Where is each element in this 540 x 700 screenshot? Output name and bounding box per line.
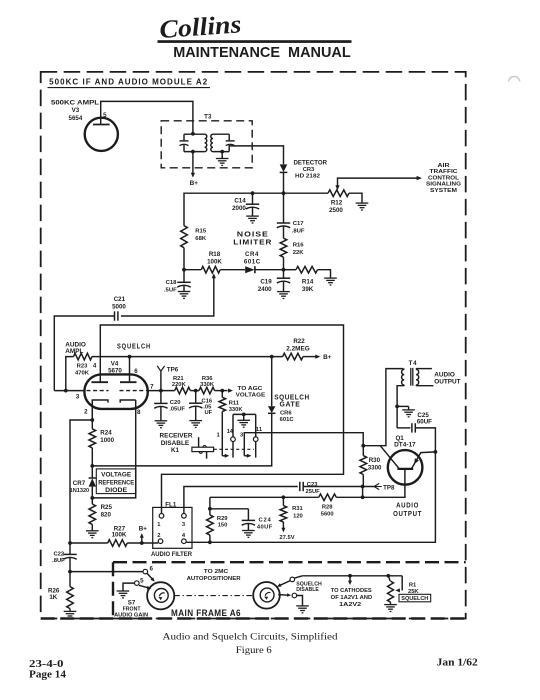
FL1 pin 3 terminal [182, 514, 187, 519]
wire C23 to R30 node [303, 486, 374, 488]
wire V4 pin3 grid bus [54, 390, 85, 392]
label R16 [293, 243, 305, 249]
junction R31 tap [282, 495, 286, 499]
resistor R27 [108, 540, 128, 547]
potentiometer squelch-disable outer [253, 582, 280, 609]
wire C24 lead [247, 509, 249, 520]
svg-text:Collins: Collins [158, 9, 242, 44]
footer 23-4-0 [29, 659, 64, 670]
svg-text:CR4: CR4 [245, 251, 259, 258]
Q1 collector lead [380, 446, 399, 469]
label R21 [173, 376, 184, 382]
svg-text:5600: 5600 [321, 511, 334, 517]
T3 secondary cap side segments [228, 134, 230, 151]
label 2000 [232, 205, 246, 212]
label 3300 [368, 465, 382, 472]
arrow TO AGC [228, 389, 233, 393]
Q1 emitter lead [411, 452, 435, 469]
svg-text:C18: C18 [166, 280, 178, 286]
svg-text:1A2V2: 1A2V2 [339, 602, 361, 608]
label AUDIO AMPL [65, 341, 86, 355]
wire plate bus R23 to R22 [92, 356, 283, 358]
B+ arrow (FL1) [140, 533, 144, 543]
R12 wiper arrow [335, 185, 339, 190]
wire cathode to C22 line [70, 420, 92, 554]
wire R31 to 27.5V [282, 522, 284, 529]
svg-text:R30: R30 [369, 457, 381, 464]
label R27 [114, 525, 126, 532]
wire FL1 pin4 to Q1 emitter riser [186, 452, 435, 542]
resistor R28 [319, 494, 337, 501]
SQUELCH boxed label [399, 594, 431, 602]
wire disable bus [302, 575, 402, 577]
label C25 [417, 412, 429, 419]
junction contact ground [242, 413, 246, 417]
wire R21 to R36 [190, 390, 199, 392]
wire R11 to contact arm 1 [221, 412, 223, 456]
svg-text:3300: 3300 [368, 465, 382, 472]
label AUDIO FILTER [151, 551, 192, 558]
contact 14 terminal [231, 414, 236, 457]
svg-text:OF 1A2V1 AND: OF 1A2V1 AND [331, 595, 373, 601]
ground relay contacts [237, 420, 250, 427]
svg-text:6: 6 [134, 368, 138, 375]
svg-text:R11: R11 [229, 401, 240, 407]
caption line 1 [163, 631, 338, 642]
junction detector bus / CR3 [282, 191, 286, 195]
wire C22 to junction [69, 558, 71, 572]
label R28 [322, 505, 333, 511]
label R30 [369, 457, 381, 464]
svg-text:11: 11 [256, 427, 263, 433]
label AUDIO OUTPUT (Q1) [393, 501, 422, 518]
transistor Q1 [388, 450, 423, 485]
resistor R11 [219, 391, 226, 412]
resistor R22 [283, 353, 303, 360]
svg-text:HD 2182: HD 2182 [295, 173, 320, 179]
ground R12 [356, 203, 369, 210]
wire T4 secondary bottom [404, 384, 433, 387]
resistor R31 [280, 497, 287, 522]
svg-text:CR3: CR3 [303, 167, 315, 173]
wire C21 to V4 grid [54, 316, 114, 391]
label R22 [293, 338, 305, 345]
resistor R25 [89, 498, 96, 525]
pin 6 terminal [143, 569, 148, 574]
label V4 [111, 360, 119, 367]
wire R29 node riser [209, 497, 211, 509]
junction CR6 top [270, 355, 274, 359]
junction R1 top [386, 574, 390, 578]
svg-text:820: 820 [101, 512, 112, 519]
label R14 [302, 279, 314, 286]
label SQUELCH GATE [274, 394, 310, 408]
wire base bus [210, 496, 319, 498]
label SQUELCH DISABLE [296, 581, 322, 593]
capacitor C25 [412, 423, 415, 432]
wire CR6 cathode to cathode bus [92, 413, 271, 466]
svg-text:R15: R15 [195, 229, 207, 235]
label 5000 [112, 304, 126, 311]
wire R14 to ground [318, 270, 331, 278]
svg-text:R31: R31 [292, 506, 303, 512]
svg-text:DETECTOR: DETECTOR [294, 160, 328, 167]
label 120 [293, 514, 303, 520]
svg-text:FL1: FL1 [165, 501, 177, 508]
V4 left grid dashes [87, 390, 109, 392]
svg-text:R18: R18 [209, 251, 221, 258]
label 1N1320 [70, 488, 90, 494]
svg-text:.05UF: .05UF [169, 406, 185, 412]
junction C14 tap [251, 191, 255, 195]
arrow 27.5V [281, 528, 285, 533]
svg-text:C22: C22 [53, 552, 64, 558]
label 100K [207, 258, 222, 265]
resistor R14 [296, 266, 318, 273]
svg-text:V3: V3 [72, 107, 80, 114]
T3 primary coil [205, 134, 207, 151]
T4 secondary coil [416, 369, 419, 385]
resistor R30 [360, 446, 367, 487]
audio filter FL1 box [153, 507, 192, 548]
Collins logo script [158, 9, 242, 44]
svg-text:REFERENCE: REFERENCE [98, 479, 134, 486]
junction CR6 return / R24 [90, 464, 94, 468]
ground C24 [242, 531, 255, 538]
label TO AGC VOLTAGE [236, 386, 266, 398]
label C18 [166, 280, 178, 286]
resistor R26 [67, 572, 74, 609]
svg-text:AUDIO GAIN: AUDIO GAIN [114, 613, 148, 619]
wire CR4 to C19 node [255, 269, 284, 271]
wire C25 left [397, 427, 410, 429]
ground squelch-disable [296, 606, 309, 613]
svg-text:2400: 2400 [258, 286, 272, 293]
wire C20 lead [160, 391, 162, 404]
label R1 [409, 582, 417, 588]
svg-text:TO CATHODES: TO CATHODES [331, 588, 372, 594]
V4 right plate bar [120, 381, 137, 383]
wire C24 to ground [247, 524, 249, 530]
label T3 [204, 113, 212, 120]
wire ground branch [397, 406, 409, 409]
label HD 2182 [295, 173, 320, 179]
capacitor C16 [189, 403, 202, 408]
label 500KC AMPL [51, 99, 99, 106]
label S7 [128, 600, 136, 607]
V4 left plate bar [92, 381, 109, 383]
label 25K [408, 589, 419, 595]
T3 primary tank capacitor plates [180, 141, 189, 146]
svg-text:R16: R16 [293, 243, 305, 249]
label 601C [244, 258, 261, 265]
ground R26 [64, 611, 77, 618]
capacitor C21 [115, 311, 118, 320]
svg-text:SIGNALING: SIGNALING [426, 182, 462, 188]
svg-text:R24: R24 [100, 430, 112, 437]
label R12 [331, 200, 343, 207]
label DETECTOR [294, 160, 328, 167]
label 1000 [100, 437, 114, 444]
wire CR7 cathode lead [91, 466, 93, 478]
wire R27 left [70, 542, 108, 544]
wire C19 lead [283, 270, 285, 278]
svg-text:R1: R1 [409, 582, 417, 588]
junction V4 pin6 plate [128, 355, 132, 359]
Q1 base bar [397, 468, 413, 470]
wire T3 primary to B+ [192, 152, 194, 175]
MAINTENANCE MANUAL title [173, 45, 351, 61]
svg-text:14: 14 [227, 429, 234, 435]
transformer T3 dashed box [161, 121, 252, 168]
wire C16 lead [195, 391, 197, 403]
test point TP6 [157, 366, 164, 391]
wire R25 to ground [91, 524, 93, 530]
pin 3 label [76, 394, 80, 401]
svg-text:TO AGC: TO AGC [237, 386, 263, 392]
svg-text:TP8: TP8 [383, 484, 395, 491]
svg-text:330K: 330K [200, 382, 215, 388]
wire to C24 [210, 508, 249, 510]
svg-text:SQUELCH: SQUELCH [117, 342, 151, 351]
wire C17 to R16 [283, 227, 285, 239]
wire C20 to ground [160, 407, 162, 421]
wire C18 to ground [183, 286, 185, 292]
label .5UF [164, 287, 177, 293]
tube V4 [84, 374, 147, 409]
svg-text:AUTOPOSITIONER: AUTOPOSITIONER [187, 576, 242, 582]
pin 6 label (A6) [149, 566, 153, 573]
junction C18 node [182, 268, 186, 272]
label 1K [49, 594, 57, 601]
junction R30 top / collector [361, 444, 365, 448]
svg-text:MAINTENANCE MANUAL: MAINTENANCE MANUAL [173, 45, 351, 61]
wire T4 secondary top [404, 368, 432, 371]
page hole mark (decorative arc) [509, 77, 520, 82]
resistor R23 [74, 353, 93, 360]
label 60UF [417, 418, 432, 425]
label TP6 [167, 366, 179, 373]
pin 5 label [103, 112, 107, 119]
junction T3 primary top [191, 132, 195, 136]
junction Q1 emitter [434, 450, 438, 454]
wire R23 branch riser [66, 357, 74, 391]
V3 plate bar [93, 124, 110, 126]
label T4 [409, 360, 418, 367]
svg-text:C20: C20 [170, 400, 181, 406]
resistor R12 (pot) [328, 190, 349, 197]
svg-text:5: 5 [103, 112, 107, 119]
svg-text:SQUELCH: SQUELCH [401, 596, 428, 602]
wire V4 pin2 cathode to R24 node [91, 400, 93, 429]
wire C19 node to R14 [284, 269, 297, 271]
wire R12 right to ground [349, 193, 362, 203]
label C16 [202, 398, 213, 404]
svg-text:470K: 470K [75, 370, 90, 376]
svg-text:S7: S7 [128, 600, 136, 607]
junction C22/R26/pin6 [68, 570, 72, 574]
svg-text:2500: 2500 [329, 207, 343, 214]
svg-text:C16: C16 [202, 398, 213, 404]
wire collector node to T4 riser [363, 369, 403, 446]
R18 wiper arrow [212, 273, 216, 278]
T3 primary tank cap side segments [183, 134, 185, 151]
wire C18 lead [183, 270, 185, 282]
svg-text:8: 8 [137, 409, 141, 416]
footer Page 14 [29, 669, 66, 680]
wire R16 to noise limiter node [283, 257, 285, 270]
wire T3 secondary to detector [229, 146, 283, 164]
wire T4 primary bottom [397, 386, 404, 428]
svg-text:LIMITER: LIMITER [233, 238, 272, 247]
svg-text:R29: R29 [217, 516, 228, 522]
potentiometer S7 outer [147, 582, 174, 609]
pin 6 label [134, 368, 138, 375]
Collins logo underline rule [158, 40, 352, 43]
wire C14 to ground [252, 208, 254, 216]
wire R36 to AGC arrow [215, 390, 228, 392]
squelch-disable lower terminal [292, 593, 297, 598]
label 330K (R11) [229, 407, 244, 413]
R12 wiper arm wire [338, 178, 419, 186]
junction R23 tap [64, 389, 68, 393]
label NOISE LIMITER [233, 230, 272, 247]
label 25UF [306, 489, 321, 495]
label DT4-17 [394, 442, 416, 449]
label R31 [292, 506, 303, 512]
link C23 node to base bus [362, 487, 364, 498]
svg-text:SQUELCH: SQUELCH [274, 394, 310, 401]
FL1 pin 2 label [157, 533, 160, 539]
B+ arrow (R22) [315, 355, 320, 359]
label .8UF (C22) [52, 558, 65, 564]
diode CR7 (voltage reference) [89, 478, 96, 487]
label CR6 [280, 410, 292, 416]
ground R1 [384, 605, 397, 612]
junction C19 node [282, 268, 286, 272]
label AUDIO OUTPUT (T4) [434, 371, 460, 385]
svg-text:40UF: 40UF [257, 524, 273, 530]
wire R1 to ground [390, 602, 392, 604]
junction C16 tap [194, 389, 198, 393]
T3 secondary loop top/bottom [213, 134, 229, 151]
svg-text:DISABLE: DISABLE [161, 440, 190, 447]
tube V3 [85, 118, 118, 151]
label C22 [53, 552, 64, 558]
svg-text:TO 2MC: TO 2MC [204, 569, 229, 575]
svg-text:5670: 5670 [108, 368, 122, 375]
contact arm 1 arrow [222, 454, 229, 458]
wire R15 to C18 node [183, 248, 185, 270]
FL1 pin 4 label [182, 533, 186, 539]
svg-text:AIR: AIR [438, 163, 451, 169]
wire contact bracket to ground [243, 414, 245, 420]
pin 5 terminal [135, 581, 140, 586]
junction C23/R28 link bottom [361, 495, 365, 499]
junction R27 tap on C22 line [68, 541, 72, 545]
label R23 [77, 363, 89, 369]
ground R25 [86, 531, 99, 538]
potentiometer squelch-disable inner [260, 588, 274, 602]
label 100K (R27) [112, 532, 127, 539]
svg-text:27.5V: 27.5V [279, 535, 294, 541]
label TO CATHODES OF 1A2V1 AND 1A2V2 [331, 588, 373, 608]
label C23 [307, 482, 318, 488]
ground T4 primary return [402, 410, 415, 417]
ground C18 [178, 292, 191, 299]
label B+ (R22) [323, 354, 332, 361]
pin 5 label (A6) [140, 577, 144, 584]
junction CR7/R25/pin8 [90, 496, 94, 500]
capacitor C19 [277, 278, 290, 283]
svg-text:B+: B+ [139, 526, 147, 533]
wire detector bus to R12 [284, 192, 329, 194]
label 601C (CR6) [280, 417, 295, 423]
arrow to air traffic system [417, 176, 422, 180]
wire detector bus left (to R15 top) [184, 193, 284, 226]
svg-text:GATE: GATE [280, 402, 301, 409]
resistor R16 [280, 238, 287, 257]
svg-text:60UF: 60UF [417, 418, 432, 425]
wire FL1 pin3 riser to C23 [184, 487, 298, 514]
svg-text:330K: 330K [229, 407, 244, 413]
label CR4 [245, 251, 259, 258]
svg-text:2: 2 [157, 533, 160, 539]
wire pin5 to ground [123, 583, 135, 591]
junction B+ feed [140, 541, 144, 545]
junction T4 ground tap [395, 405, 399, 409]
label R18 [209, 251, 221, 258]
test point TP8 [374, 483, 382, 489]
label R29 [217, 516, 228, 522]
contact arm 3 arrow [244, 454, 251, 458]
FL1 pin 4 terminal [182, 539, 187, 544]
label 2400 [258, 286, 272, 293]
T3 primary tank loop top/bottom [184, 134, 205, 151]
svg-text:R25: R25 [101, 504, 113, 511]
label R26 [48, 588, 60, 595]
svg-text:OUTPUT: OUTPUT [434, 378, 460, 385]
V4 right cathode [120, 400, 136, 403]
label 27.5V [279, 535, 294, 541]
svg-text:5000: 5000 [112, 304, 126, 311]
label TP8 [383, 484, 395, 491]
junction T3 secondary bottom [220, 150, 224, 154]
wire C14 lead [252, 193, 254, 204]
capacitor C23 [300, 482, 303, 491]
transformer T4 core [411, 368, 413, 386]
svg-text:601C: 601C [280, 417, 295, 423]
svg-text:CR6: CR6 [280, 410, 292, 416]
svg-text:2000: 2000 [232, 205, 246, 212]
wire CR7 anode to R25 node [91, 487, 93, 498]
wire V4 pin8 cathode down [92, 400, 135, 498]
capacitor C17 [277, 223, 290, 228]
V4 right grid dashes [120, 390, 147, 392]
module A2 title underline [48, 87, 211, 89]
svg-text:AUDIO FILTER: AUDIO FILTER [151, 551, 192, 558]
ground C19 [277, 292, 290, 299]
ground pin 5 [117, 591, 130, 598]
label C24 [259, 518, 272, 524]
K1 mechanical linkage dashes [214, 448, 254, 450]
FL1 pin 1 terminal [159, 514, 164, 519]
label V3 [72, 107, 80, 114]
svg-text:120: 120 [293, 514, 303, 520]
FL1 pin 3 label [182, 522, 186, 528]
svg-text:68K: 68K [195, 236, 207, 242]
svg-text:R23: R23 [77, 363, 89, 369]
